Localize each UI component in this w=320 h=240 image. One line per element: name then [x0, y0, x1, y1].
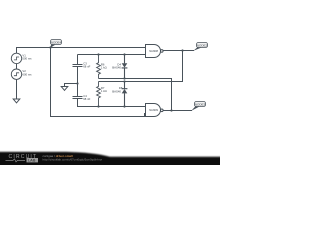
svg-text:BAS40: BAS40 — [112, 65, 121, 69]
ground stem mid network — [65, 84, 78, 87]
wire V1 to V2 — [16, 64, 18, 70]
diode D5 — [122, 82, 128, 107]
voltage source V1 — [11, 53, 21, 63]
svg-text:http://circuitlab.com/c/67cm0q: http://circuitlab.com/c/67cm0qdc/5cm0qdb… — [43, 158, 103, 162]
wire input drop to bottom rail and NAND U2 input B — [51, 48, 146, 117]
svg-text:LAB: LAB — [28, 159, 36, 163]
svg-text:68 nF: 68 nF — [83, 97, 90, 101]
footer watermark bar — [0, 152, 222, 167]
svg-text:BAS40: BAS40 — [112, 89, 121, 93]
wire rail4 from R7/D5 top to NAND U1 output — [99, 51, 183, 82]
svg-text:NODE4: NODE4 — [51, 40, 62, 44]
ground symbol mid network — [61, 87, 68, 91]
svg-text:68 nF: 68 nF — [83, 64, 90, 68]
wire rail2 delayed node to NAND U1 input B — [78, 54, 146, 56]
capacitor C3 plates — [72, 65, 82, 67]
svg-text:NAND8: NAND8 — [149, 49, 158, 53]
ground symbol at sources — [13, 99, 20, 103]
svg-text:500 ms: 500 ms — [22, 57, 32, 61]
node flag input NODE4 — [50, 40, 61, 48]
NAND gate U2 body — [146, 104, 161, 117]
wire NAND U2 output to flag — [163, 110, 192, 112]
node flag output NODE2 — [193, 43, 207, 51]
wire rail3 from R6/D4 bottom to NAND U2 output — [99, 79, 172, 111]
node flag output NODE3 — [191, 102, 205, 111]
component labels — [22, 49, 158, 112]
wire V2 to ground — [16, 79, 18, 99]
svg-text:NAND9: NAND9 — [149, 108, 158, 112]
junction dots — [49, 46, 183, 111]
voltage source V2 — [11, 69, 21, 79]
resistor R6 — [97, 55, 101, 79]
svg-text:600 ms: 600 ms — [22, 72, 32, 76]
svg-text:1 kΩ: 1 kΩ — [101, 65, 107, 69]
diode D4 — [122, 55, 128, 79]
capacitor C4 plates — [72, 97, 82, 99]
svg-text:NODE2: NODE2 — [197, 43, 208, 47]
wire capacitor column C3/C4 and net4 line to NAND U2 input A — [78, 55, 146, 107]
NAND gate U1 body — [146, 45, 161, 58]
wire input rail from V1 to NAND gate U1 input A — [17, 48, 146, 54]
svg-text:NODE3: NODE3 — [195, 102, 206, 106]
svg-text:1 kΩ: 1 kΩ — [101, 89, 107, 93]
wire NAND U1 output to flag — [163, 50, 194, 52]
resistor R7 — [97, 82, 101, 107]
